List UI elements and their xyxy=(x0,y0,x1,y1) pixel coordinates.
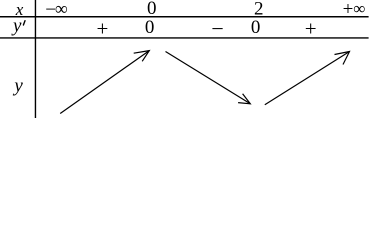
separator line (below y' row) xyxy=(0,37,369,39)
arrow up 1 head xyxy=(134,51,150,62)
arrow up 1 shaft xyxy=(60,51,149,114)
arrow down head xyxy=(238,94,250,104)
svg-text:+: + xyxy=(96,17,108,41)
svg-text:∞: ∞ xyxy=(55,0,68,19)
svg-text:0: 0 xyxy=(145,17,155,38)
arrow up 2 shaft xyxy=(265,52,350,105)
svg-text:0: 0 xyxy=(251,17,261,38)
arrow up 2 head xyxy=(335,52,350,65)
svg-text:+: + xyxy=(343,0,354,20)
vertical divider line xyxy=(34,0,36,118)
svg-text:−: − xyxy=(211,16,223,41)
header separator line (below x row) xyxy=(0,16,369,18)
arrow down shaft xyxy=(166,52,251,104)
prime of y' xyxy=(23,21,25,25)
svg-text:y: y xyxy=(12,75,23,96)
svg-text:∞: ∞ xyxy=(353,0,365,18)
svg-text:+: + xyxy=(305,16,317,40)
svg-text:y: y xyxy=(11,15,22,36)
